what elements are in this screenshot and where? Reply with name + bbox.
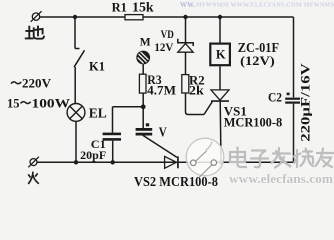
svg-text:220V: 220V xyxy=(22,76,52,91)
svg-text:VS2 MCR100-8: VS2 MCR100-8 xyxy=(134,175,218,190)
svg-text:C2: C2 xyxy=(268,91,282,105)
svg-text:K1: K1 xyxy=(89,59,105,73)
svg-text:15k: 15k xyxy=(132,0,154,15)
svg-text:100W: 100W xyxy=(32,96,71,110)
svg-text:4.7M: 4.7M xyxy=(147,83,176,97)
svg-text:MCR100-8: MCR100-8 xyxy=(224,114,283,129)
svg-text:V: V xyxy=(159,126,167,141)
svg-text:20pF: 20pF xyxy=(80,148,106,162)
svg-text:2k: 2k xyxy=(189,84,204,98)
svg-text:MFWNMM WWW.ELECFANS.COM MFWNMM: MFWNMM WWW.ELECFANS.COM MFWNMM WWW.ELECF… xyxy=(196,3,334,9)
svg-text:K: K xyxy=(216,48,226,62)
svg-text:M: M xyxy=(140,37,151,49)
svg-text:R1: R1 xyxy=(112,1,127,15)
svg-text:EL: EL xyxy=(89,105,107,120)
svg-text:220μF/16V: 220μF/16V xyxy=(298,62,313,141)
svg-text:VD: VD xyxy=(161,29,174,41)
svg-text:WW.: WW. xyxy=(180,1,195,9)
svg-text:www.elecfans.com: www.elecfans.com xyxy=(229,172,333,186)
svg-text:15: 15 xyxy=(7,96,20,110)
svg-text:12V: 12V xyxy=(154,42,174,54)
svg-text:(12V): (12V) xyxy=(240,53,275,68)
